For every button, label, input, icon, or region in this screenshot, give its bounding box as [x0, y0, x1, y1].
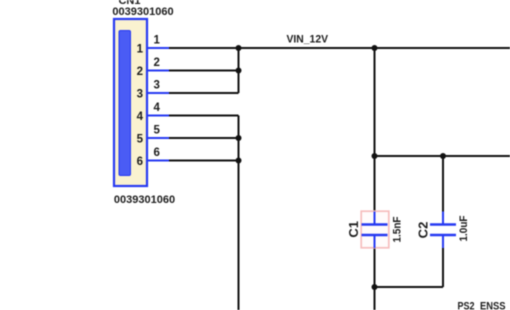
junction pin6 bus	[236, 158, 242, 164]
wire mid horizontal branch	[375, 155, 510, 157]
svg-text:2: 2	[154, 57, 160, 69]
svg-text:5: 5	[137, 133, 144, 145]
wire VIN_12V drop to capacitors	[374, 48, 376, 212]
svg-text:6: 6	[137, 156, 143, 168]
junction pin2 bus	[236, 68, 242, 74]
svg-text:4: 4	[137, 111, 144, 123]
svg-text:0039301060: 0039301060	[114, 194, 175, 206]
svg-text:3: 3	[137, 88, 143, 100]
svg-text:1: 1	[154, 34, 161, 46]
wire bottom horizontal C2 to C1	[375, 286, 444, 288]
svg-text:PS2ENSS: PS2ENSS	[458, 301, 506, 310]
capacitor C2	[430, 212, 456, 249]
pin 6	[137, 147, 169, 168]
wire pin1 to bus	[169, 47, 239, 49]
svg-text:1.0uF: 1.0uF	[458, 215, 470, 241]
pin 4	[137, 102, 169, 123]
wire branch down to C2	[442, 156, 444, 212]
svg-text:C2: C2	[416, 222, 431, 239]
svg-text:4: 4	[154, 102, 161, 114]
svg-text:3: 3	[154, 79, 160, 91]
svg-text:C1: C1	[346, 221, 361, 238]
junction mid branch C2	[440, 153, 446, 159]
wire bus pins 1-3 vertical	[238, 48, 240, 93]
wire net VIN_12V horizontal	[239, 47, 510, 49]
connector CN1 body	[114, 19, 147, 186]
svg-text:6: 6	[154, 147, 160, 159]
junction mid branch left	[372, 153, 378, 159]
svg-text:5: 5	[154, 124, 161, 136]
capacitor C1 selection highlight	[361, 211, 389, 248]
junction pin1 bus	[236, 45, 242, 51]
junction pin5 bus	[236, 135, 242, 141]
junction bottom C1	[372, 284, 378, 290]
wire pin5 to bus	[169, 137, 239, 139]
junction VIN_12V drop	[372, 45, 378, 51]
wire below C2	[442, 248, 444, 287]
pin 2	[137, 57, 169, 78]
svg-text:0039301060: 0039301060	[112, 6, 173, 18]
wire pin3 to bus	[169, 92, 239, 94]
wire pin4 to bus	[169, 115, 239, 117]
pin 1	[137, 34, 169, 55]
wire pin2 to bus	[169, 70, 239, 72]
wire pin6 to bus	[169, 160, 239, 162]
wire bus pins 4-6 vertical down to edge	[238, 116, 240, 310]
svg-text:2: 2	[137, 66, 143, 78]
pin 5	[137, 124, 169, 145]
pin 3	[137, 79, 169, 100]
svg-text:1: 1	[137, 43, 144, 55]
svg-text:VIN_12V: VIN_12V	[287, 34, 329, 46]
svg-text:1.5nF: 1.5nF	[392, 216, 404, 242]
capacitor C1	[362, 212, 388, 249]
wire below C1 to bottom edge	[374, 248, 376, 310]
